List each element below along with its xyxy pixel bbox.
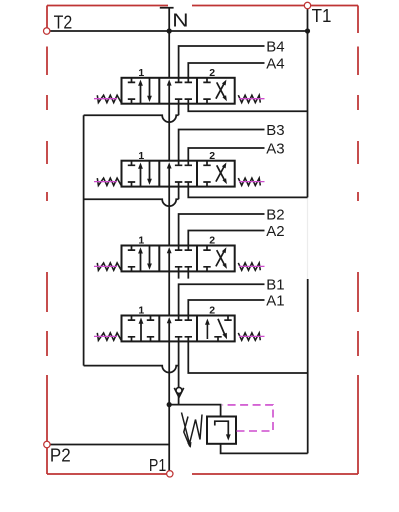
wire: pump port P2 line (50, 444, 170, 446)
wire: work port A3 line (188, 148, 264, 161)
port N plug cap (160, 8, 174, 31)
svg-text:B1: B1 (266, 277, 284, 294)
wire: open-centre carryover line N (vertical) (168, 31, 170, 78)
svg-text:A3: A3 (266, 140, 284, 157)
node: junction T1 riser on tank line (305, 28, 310, 33)
port circle T1 (304, 2, 310, 8)
wire: faint bus trace (gap) (307, 197, 309, 279)
svg-text:A2: A2 (266, 223, 284, 240)
port circle P1 (167, 471, 173, 477)
wire: relief valve inlet branch (169, 405, 220, 417)
wire: section 3 parallel feed with hop over centre line (84, 199, 179, 206)
relief valve RV1 adjustable spring (184, 415, 202, 446)
node: junction P inlet gallery (167, 402, 172, 407)
node: junction N on tank line (167, 28, 172, 33)
wire: relief valve outlet to tank bus (221, 444, 308, 454)
wire: tank line T2 to T1 (50, 30, 308, 32)
wire: work port B3 line (179, 130, 265, 161)
wire: section 1 tank return to bus (188, 341, 307, 373)
wire: section 4 parallel feed with hop over centre line (84, 115, 179, 122)
directional control valve section V4 (3-position spool) (94, 67, 265, 104)
check valve CV1 (ball and seat) (174, 388, 183, 397)
wire: feed riser through load check valve (178, 341, 180, 404)
wire: tank return bus (lower) (307, 279, 309, 453)
port circle T2 (44, 28, 50, 34)
wire: work port B4 line (179, 46, 265, 78)
wire: work port A2 line (188, 231, 264, 246)
wire: section 1 parallel feed with hop over centre line (84, 366, 179, 373)
wire: work port A4 line (188, 63, 264, 78)
wire: T1 riser / tank return bus (upper) (307, 9, 309, 198)
directional control valve section V2 (3-position spool) (94, 235, 265, 272)
svg-text:N: N (172, 10, 188, 30)
wire: work port A1 line (188, 300, 264, 316)
relief valve RV1 flow arrow (215, 421, 229, 437)
wire: work port B2 line (179, 214, 265, 246)
svg-text:B4: B4 (266, 38, 284, 55)
directional control valve section V1 (3-position spool, single-acting) (94, 305, 265, 342)
svg-text:T1: T1 (312, 6, 332, 26)
wire: parallel pressure feed bus (left) (83, 115, 85, 365)
valve body enclosure boundary (red chain line) (47, 6, 358, 475)
port circle P2 (44, 441, 50, 447)
wire: work port B1 line (179, 284, 265, 315)
svg-text:A1: A1 (266, 292, 284, 309)
directional control valve section V3 (3-position spool) (94, 150, 265, 187)
wire: section 3 tank return to bus (188, 187, 307, 198)
pilot line to relief valve (magenta dashed) (223, 405, 274, 431)
svg-text:T2: T2 (54, 13, 73, 33)
svg-text:B3: B3 (266, 122, 284, 139)
wire: section 2 port stubs (179, 271, 189, 278)
relief valve RV1 body (207, 417, 236, 444)
svg-text:P1: P1 (149, 455, 166, 475)
svg-text:A4: A4 (266, 55, 284, 72)
svg-text:B2: B2 (266, 206, 284, 223)
svg-text:P2: P2 (50, 445, 71, 465)
wire: section 4 tank return to bus (188, 104, 307, 112)
